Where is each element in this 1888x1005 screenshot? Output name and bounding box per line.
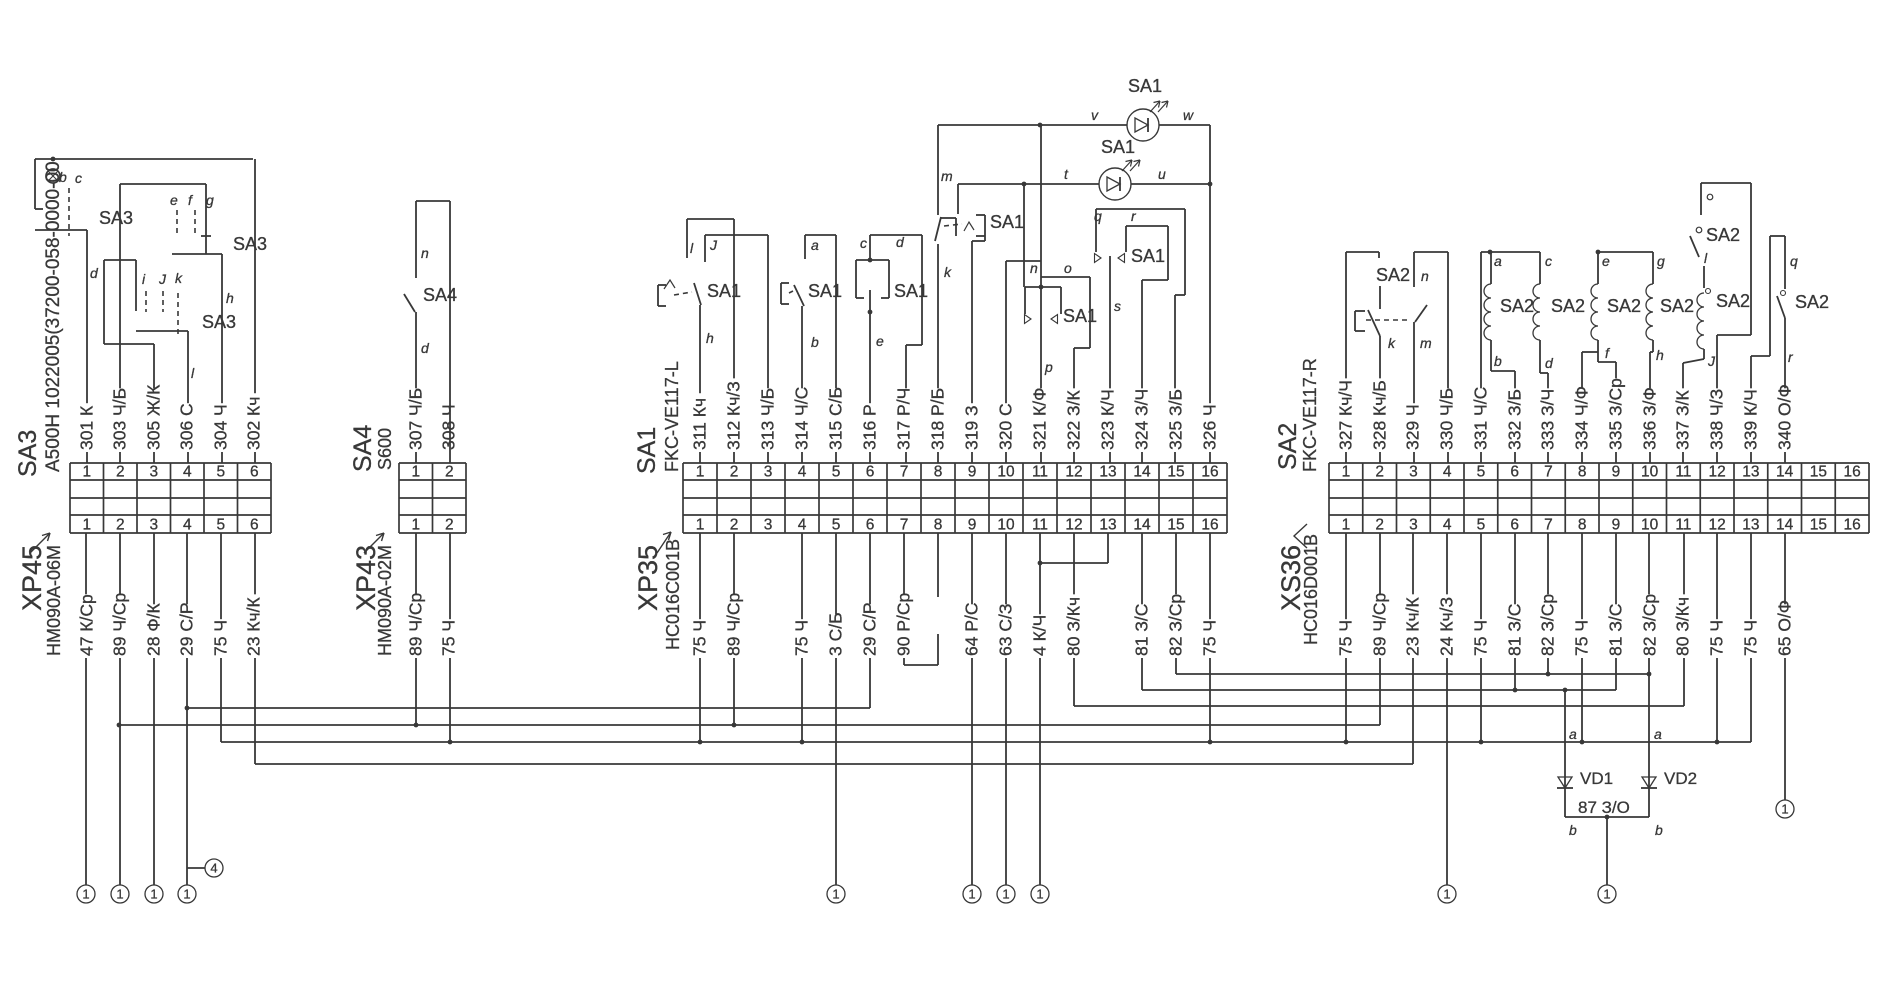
svg-text:6: 6 — [1510, 464, 1519, 481]
svg-text:337 З/К: 337 З/К — [1673, 390, 1693, 450]
svg-text:1: 1 — [411, 517, 420, 534]
svg-text:325 З/Б: 325 З/Б — [1166, 389, 1186, 450]
svg-text:28 Ф/К: 28 Ф/К — [144, 603, 164, 656]
svg-text:n: n — [1030, 260, 1038, 276]
svg-text:u: u — [1158, 166, 1166, 182]
svg-text:1: 1 — [1342, 517, 1351, 534]
svg-text:c: c — [860, 235, 867, 251]
svg-text:81 З/С: 81 З/С — [1132, 604, 1152, 656]
svg-text:J: J — [709, 237, 718, 253]
svg-text:9: 9 — [968, 464, 977, 481]
svg-text:82 З/Ср: 82 З/Ср — [1640, 594, 1660, 656]
svg-text:89 Ч/Ср: 89 Ч/Ср — [406, 593, 426, 656]
svg-text:75 Ч: 75 Ч — [1336, 620, 1356, 656]
svg-text:e: e — [1602, 253, 1610, 269]
svg-text:2: 2 — [116, 464, 125, 481]
svg-text:8: 8 — [934, 517, 943, 534]
svg-text:16: 16 — [1201, 464, 1218, 481]
svg-text:10: 10 — [997, 464, 1015, 481]
svg-text:SA3: SA3 — [202, 312, 236, 332]
svg-text:SA2: SA2 — [1660, 296, 1694, 316]
svg-text:9: 9 — [1612, 464, 1621, 481]
svg-text:322 З/К: 322 З/К — [1064, 390, 1084, 450]
svg-text:g: g — [1657, 253, 1665, 269]
svg-text:90 Р/Ср: 90 Р/Ср — [894, 593, 914, 656]
svg-text:13: 13 — [1742, 517, 1759, 534]
svg-text:5: 5 — [1477, 517, 1486, 534]
svg-text:a: a — [1569, 726, 1577, 742]
svg-text:5: 5 — [1477, 464, 1486, 481]
svg-text:75 Ч: 75 Ч — [1741, 620, 1761, 656]
svg-text:1: 1 — [82, 517, 91, 534]
svg-text:12: 12 — [1709, 464, 1726, 481]
svg-text:FKC-VE117-R: FKC-VE117-R — [1300, 358, 1320, 472]
svg-text:J: J — [158, 271, 167, 287]
svg-text:11: 11 — [1032, 517, 1048, 534]
svg-text:SA2: SA2 — [1706, 225, 1740, 245]
svg-text:14: 14 — [1133, 517, 1151, 534]
svg-text:FKC-VE117-L: FKC-VE117-L — [662, 361, 682, 472]
svg-text:1: 1 — [1781, 802, 1788, 817]
svg-text:81 З/С: 81 З/С — [1505, 604, 1525, 656]
svg-text:75 Ч: 75 Ч — [690, 620, 710, 656]
svg-text:HM090A-06M: HM090A-06M — [44, 545, 64, 656]
svg-text:15: 15 — [1810, 464, 1827, 481]
svg-text:311 Кч: 311 Кч — [690, 398, 710, 450]
svg-text:328 Кч/Б: 328 Кч/Б — [1370, 380, 1390, 450]
svg-text:1: 1 — [1603, 887, 1610, 902]
svg-text:SA2: SA2 — [1274, 423, 1302, 470]
svg-text:J: J — [1707, 353, 1716, 369]
svg-text:SA1: SA1 — [808, 281, 842, 301]
svg-text:e: e — [170, 192, 178, 208]
svg-text:12: 12 — [1065, 464, 1082, 481]
svg-text:331 Ч/С: 331 Ч/С — [1471, 387, 1491, 450]
svg-text:3: 3 — [764, 517, 773, 534]
svg-text:317 Р/Ч: 317 Р/Ч — [894, 388, 914, 450]
svg-text:1: 1 — [1443, 887, 1450, 902]
svg-text:64 Р/С: 64 Р/С — [962, 603, 982, 657]
svg-text:g: g — [206, 192, 214, 208]
svg-text:321 К/Ф: 321 К/Ф — [1030, 388, 1050, 450]
svg-text:2: 2 — [1375, 517, 1384, 534]
svg-text:1: 1 — [968, 887, 975, 902]
svg-text:w: w — [1183, 107, 1194, 123]
svg-text:82 З/Ср: 82 З/Ср — [1166, 594, 1186, 656]
svg-text:330 Ч/Б: 330 Ч/Б — [1437, 388, 1457, 450]
svg-text:332 З/Б: 332 З/Б — [1505, 389, 1525, 450]
svg-text:2: 2 — [116, 517, 125, 534]
svg-text:3: 3 — [764, 464, 773, 481]
svg-text:4: 4 — [183, 517, 192, 534]
svg-text:324 З/Ч: 324 З/Ч — [1132, 389, 1152, 450]
svg-text:315 С/Б: 315 С/Б — [826, 387, 846, 450]
svg-text:89 Ч/Ср: 89 Ч/Ср — [724, 593, 744, 656]
svg-text:a: a — [811, 237, 819, 253]
svg-text:10: 10 — [1641, 517, 1659, 534]
svg-text:n: n — [421, 245, 429, 261]
svg-text:v: v — [1091, 107, 1099, 123]
svg-text:2: 2 — [730, 464, 739, 481]
svg-text:A500H 1022005(37200-058-0000-0: A500H 1022005(37200-058-0000-00 — [43, 161, 64, 472]
svg-text:b: b — [811, 334, 819, 350]
svg-text:a: a — [1494, 253, 1502, 269]
svg-text:b: b — [1494, 353, 1502, 369]
svg-text:b: b — [1655, 822, 1663, 838]
svg-text:SA2: SA2 — [1551, 296, 1585, 316]
svg-text:338 Ч/З: 338 Ч/З — [1707, 389, 1727, 450]
svg-text:4 К/Ч: 4 К/Ч — [1030, 615, 1050, 656]
svg-text:6: 6 — [866, 517, 875, 534]
svg-text:75 Ч: 75 Ч — [792, 620, 812, 656]
svg-text:1: 1 — [696, 464, 705, 481]
svg-text:3: 3 — [1409, 464, 1418, 481]
svg-text:SA2: SA2 — [1716, 291, 1750, 311]
svg-text:4: 4 — [798, 517, 807, 534]
svg-text:3 С/Б: 3 С/Б — [826, 612, 846, 656]
svg-text:1: 1 — [150, 887, 157, 902]
svg-text:340 О/Ф: 340 О/Ф — [1775, 384, 1795, 450]
svg-text:14: 14 — [1133, 464, 1151, 481]
svg-text:c: c — [75, 170, 82, 186]
svg-text:75 Ч: 75 Ч — [1707, 620, 1727, 656]
svg-text:9: 9 — [1612, 517, 1621, 534]
svg-text:4: 4 — [183, 464, 192, 481]
svg-text:75 Ч: 75 Ч — [211, 620, 231, 656]
svg-text:SA2: SA2 — [1376, 265, 1410, 285]
svg-text:SA1: SA1 — [1101, 137, 1135, 157]
svg-text:80 З/Кч: 80 З/Кч — [1673, 597, 1693, 656]
svg-text:SA1: SA1 — [1131, 246, 1165, 266]
svg-text:316 Р: 316 Р — [860, 404, 880, 450]
svg-text:13: 13 — [1099, 464, 1116, 481]
svg-text:306 С: 306 С — [177, 403, 197, 450]
svg-text:16: 16 — [1844, 517, 1861, 534]
svg-text:65 О/Ф: 65 О/Ф — [1775, 600, 1795, 656]
svg-text:SA1: SA1 — [990, 212, 1024, 232]
svg-text:4: 4 — [798, 464, 807, 481]
svg-text:b: b — [1569, 822, 1577, 838]
svg-text:d: d — [1545, 355, 1554, 371]
svg-text:3: 3 — [149, 517, 158, 534]
svg-text:63 С/З: 63 С/З — [996, 604, 1016, 656]
svg-text:q: q — [1094, 208, 1102, 224]
svg-text:75 Ч: 75 Ч — [1572, 620, 1592, 656]
svg-text:89 Ч/Ср: 89 Ч/Ср — [110, 593, 130, 656]
svg-text:15: 15 — [1810, 517, 1827, 534]
svg-text:305 Ж/К: 305 Ж/К — [144, 384, 164, 450]
svg-text:SA1: SA1 — [894, 281, 928, 301]
svg-text:16: 16 — [1844, 464, 1861, 481]
svg-text:29 С/Р: 29 С/Р — [177, 603, 197, 657]
svg-text:9: 9 — [968, 517, 977, 534]
svg-text:1: 1 — [82, 887, 89, 902]
svg-text:4: 4 — [1443, 517, 1452, 534]
svg-text:SA3: SA3 — [99, 208, 133, 228]
svg-text:2: 2 — [730, 517, 739, 534]
svg-text:13: 13 — [1742, 464, 1759, 481]
svg-text:323 К/Ч: 323 К/Ч — [1098, 389, 1118, 450]
svg-text:6: 6 — [250, 464, 259, 481]
svg-text:301 К: 301 К — [77, 405, 97, 450]
svg-text:1: 1 — [1342, 464, 1351, 481]
svg-text:47 К/Ср: 47 К/Ср — [77, 594, 97, 656]
svg-text:11: 11 — [1675, 464, 1691, 481]
svg-text:4: 4 — [1443, 464, 1452, 481]
svg-text:1: 1 — [183, 887, 190, 902]
svg-text:75 Ч: 75 Ч — [1471, 620, 1491, 656]
svg-text:SA3: SA3 — [14, 430, 42, 477]
svg-text:3: 3 — [149, 464, 158, 481]
svg-text:6: 6 — [250, 517, 259, 534]
svg-text:313 Ч/Б: 313 Ч/Б — [758, 388, 778, 450]
svg-text:16: 16 — [1201, 517, 1218, 534]
svg-text:HC016C001B: HC016C001B — [663, 539, 683, 650]
svg-text:312 Кч/З: 312 Кч/З — [724, 381, 744, 450]
svg-text:89 Ч/Ср: 89 Ч/Ср — [1370, 593, 1390, 656]
svg-text:3: 3 — [1409, 517, 1418, 534]
svg-text:d: d — [421, 340, 430, 356]
svg-text:11: 11 — [1032, 464, 1048, 481]
svg-text:6: 6 — [866, 464, 875, 481]
svg-text:75 Ч: 75 Ч — [1200, 620, 1220, 656]
svg-text:23 Кч/К: 23 Кч/К — [244, 596, 264, 656]
svg-text:320 С: 320 С — [996, 403, 1016, 450]
svg-text:335 З/Ср: 335 З/Ср — [1606, 378, 1626, 450]
svg-text:15: 15 — [1167, 464, 1184, 481]
svg-text:336 З/Ф: 336 З/Ф — [1640, 387, 1660, 450]
svg-text:m: m — [941, 168, 953, 184]
svg-text:q: q — [1790, 253, 1798, 269]
svg-text:s: s — [1114, 298, 1121, 314]
svg-text:329 Ч: 329 Ч — [1403, 404, 1423, 450]
svg-text:SA4: SA4 — [349, 425, 377, 472]
svg-text:1: 1 — [116, 887, 123, 902]
svg-text:333 З/Ч: 333 З/Ч — [1538, 389, 1558, 450]
svg-text:VD2: VD2 — [1664, 769, 1697, 788]
svg-text:29 С/Р: 29 С/Р — [860, 603, 880, 657]
svg-text:302 Кч: 302 Кч — [244, 397, 264, 450]
svg-text:2: 2 — [445, 464, 454, 481]
svg-text:10: 10 — [997, 517, 1015, 534]
svg-text:SA1: SA1 — [707, 281, 741, 301]
svg-text:8: 8 — [934, 464, 943, 481]
svg-text:5: 5 — [832, 464, 841, 481]
svg-text:15: 15 — [1167, 517, 1184, 534]
svg-text:304 Ч: 304 Ч — [211, 404, 231, 450]
svg-text:k: k — [175, 270, 183, 286]
svg-text:c: c — [1545, 253, 1552, 269]
svg-text:326 Ч: 326 Ч — [1200, 404, 1220, 450]
svg-text:SA2: SA2 — [1500, 296, 1534, 316]
svg-text:e: e — [876, 333, 884, 349]
svg-text:S600: S600 — [375, 428, 395, 470]
svg-text:1: 1 — [82, 464, 91, 481]
svg-text:23 Кч/К: 23 Кч/К — [1403, 596, 1423, 656]
svg-text:12: 12 — [1065, 517, 1082, 534]
svg-text:14: 14 — [1776, 464, 1794, 481]
svg-text:7: 7 — [900, 464, 909, 481]
svg-text:87 З/О: 87 З/О — [1578, 798, 1630, 817]
svg-text:81 З/С: 81 З/С — [1606, 604, 1626, 656]
svg-text:308 Ч: 308 Ч — [439, 404, 459, 450]
svg-text:SA1: SA1 — [1128, 76, 1162, 96]
svg-text:m: m — [1420, 335, 1432, 351]
svg-text:SA4: SA4 — [423, 285, 457, 305]
svg-text:5: 5 — [216, 464, 225, 481]
svg-text:XP45: XP45 — [17, 545, 47, 611]
svg-text:5: 5 — [832, 517, 841, 534]
svg-text:p: p — [1044, 359, 1053, 375]
svg-text:7: 7 — [1544, 517, 1553, 534]
svg-text:307 Ч/Б: 307 Ч/Б — [406, 388, 426, 450]
svg-text:2: 2 — [1375, 464, 1384, 481]
svg-text:318 Р/Б: 318 Р/Б — [928, 388, 948, 450]
svg-text:8: 8 — [1578, 517, 1587, 534]
svg-text:HM090A-02M: HM090A-02M — [375, 545, 395, 656]
svg-text:1: 1 — [1002, 887, 1009, 902]
svg-text:n: n — [1421, 268, 1429, 284]
svg-text:334 Ч/Ф: 334 Ч/Ф — [1572, 386, 1592, 450]
svg-text:1: 1 — [1036, 887, 1043, 902]
svg-text:XP35: XP35 — [633, 545, 663, 611]
svg-text:k: k — [944, 264, 952, 280]
svg-text:75 Ч: 75 Ч — [439, 620, 459, 656]
svg-text:303 Ч/Б: 303 Ч/Б — [110, 388, 130, 450]
svg-text:SA2: SA2 — [1795, 292, 1829, 312]
svg-text:14: 14 — [1776, 517, 1794, 534]
svg-text:327 Кч/Ч: 327 Кч/Ч — [1336, 380, 1356, 450]
svg-text:13: 13 — [1099, 517, 1116, 534]
svg-text:24 Кч/З: 24 Кч/З — [1437, 597, 1457, 656]
svg-text:4: 4 — [210, 861, 217, 876]
svg-text:d: d — [90, 265, 99, 281]
svg-text:VD1: VD1 — [1580, 769, 1613, 788]
svg-text:a: a — [1654, 726, 1662, 742]
svg-text:d: d — [896, 234, 905, 250]
svg-text:1: 1 — [411, 464, 420, 481]
svg-text:10: 10 — [1641, 464, 1659, 481]
svg-text:h: h — [706, 330, 714, 346]
svg-text:82 З/Ср: 82 З/Ср — [1538, 594, 1558, 656]
svg-text:12: 12 — [1709, 517, 1726, 534]
svg-text:314 Ч/С: 314 Ч/С — [792, 387, 812, 450]
svg-text:SA1: SA1 — [1063, 306, 1097, 326]
svg-text:5: 5 — [216, 517, 225, 534]
svg-text:h: h — [226, 290, 234, 306]
svg-text:319 З: 319 З — [962, 405, 982, 450]
svg-text:339 К/Ч: 339 К/Ч — [1741, 389, 1761, 450]
svg-text:SA2: SA2 — [1607, 296, 1641, 316]
svg-text:7: 7 — [1544, 464, 1553, 481]
svg-text:SA1: SA1 — [633, 427, 661, 474]
svg-text:7: 7 — [900, 517, 909, 534]
svg-text:h: h — [1656, 347, 1664, 363]
svg-text:8: 8 — [1578, 464, 1587, 481]
svg-text:HC016D001B: HC016D001B — [1301, 534, 1321, 645]
svg-text:o: o — [1064, 260, 1072, 276]
svg-text:1: 1 — [832, 887, 839, 902]
svg-text:1: 1 — [696, 517, 705, 534]
svg-text:6: 6 — [1510, 517, 1519, 534]
svg-text:80 З/Кч: 80 З/Кч — [1064, 597, 1084, 656]
svg-text:11: 11 — [1675, 517, 1691, 534]
svg-text:k: k — [1388, 335, 1396, 351]
svg-text:2: 2 — [445, 517, 454, 534]
svg-text:SA3: SA3 — [233, 234, 267, 254]
